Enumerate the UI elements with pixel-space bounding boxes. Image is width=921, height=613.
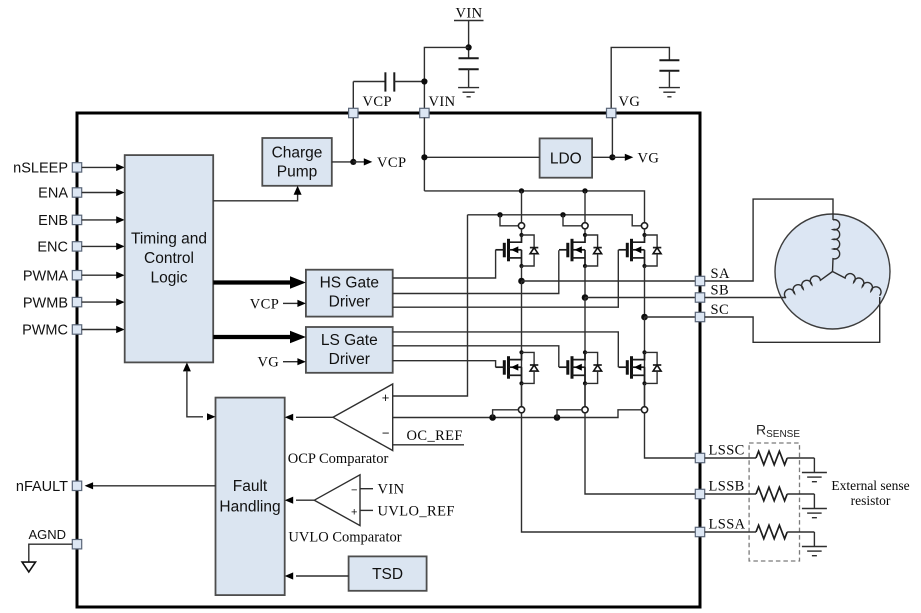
junction SC xyxy=(641,314,648,321)
wire control to fault handling xyxy=(183,362,216,420)
wire source column A xyxy=(521,383,523,406)
wire nSLEEP to control logic xyxy=(82,164,125,171)
block U4 HS Gate Driver xyxy=(306,270,393,317)
net label VCP (charge pump output) xyxy=(377,155,406,171)
pin PWMC xyxy=(72,325,81,334)
svg-text:Timing and: Timing and xyxy=(131,231,207,248)
wire PWMB to control logic xyxy=(82,299,125,306)
junction VIN rail B xyxy=(582,188,587,193)
sense tap circle (Q5) xyxy=(582,407,588,413)
svg-text:PWMB: PWMB xyxy=(23,295,68,311)
label LSSA xyxy=(709,516,746,532)
wire HS sense tap A xyxy=(500,215,518,226)
svg-text:AGND: AGND xyxy=(28,527,66,542)
wire HS gate drive A xyxy=(393,250,496,278)
svg-text:VIN: VIN xyxy=(429,94,456,110)
wire control bus to HS driver xyxy=(213,276,306,289)
wire column B to low side xyxy=(584,298,586,407)
transistor Q2 (high-side B) xyxy=(559,229,587,268)
label SA xyxy=(711,266,730,282)
net label VCP (HS driver supply) xyxy=(250,296,279,312)
svg-text:Fault: Fault xyxy=(233,478,268,495)
body diode D4 xyxy=(522,352,539,383)
wire LS sense tap B xyxy=(557,410,582,418)
wire TSD to fault handling xyxy=(285,572,349,579)
pin PWMB xyxy=(72,297,81,306)
wire LS gate drive A xyxy=(393,361,496,368)
wire phase node A column xyxy=(521,266,523,281)
svg-text:−: − xyxy=(351,485,357,497)
motor M1 (3-phase BLDC) xyxy=(775,214,890,329)
net label VIN (UVLO) xyxy=(378,482,405,498)
svg-text:nFAULT: nFAULT xyxy=(16,479,68,495)
svg-text:SB: SB xyxy=(711,282,730,298)
winding phase A xyxy=(833,220,840,272)
pin ENB xyxy=(72,215,81,224)
svg-text:HS Gate: HS Gate xyxy=(320,275,379,292)
label VIN (pin) xyxy=(429,94,456,110)
label RSENSE xyxy=(756,422,800,441)
svg-text:−: − xyxy=(382,426,390,441)
wire SB to motor xyxy=(705,297,786,299)
junction VCP out xyxy=(350,159,356,165)
label ENA xyxy=(38,186,68,202)
net label VIN (supply) xyxy=(454,6,484,22)
op-amp U8 OCP comparator xyxy=(333,384,393,451)
pin SA xyxy=(695,276,704,285)
svg-text:VCP: VCP xyxy=(363,94,392,110)
wire LS sense tap A xyxy=(493,410,519,418)
wire source column C xyxy=(644,383,646,406)
transistor Q1 (high-side A) xyxy=(496,229,524,268)
wire VCP to HS driver xyxy=(283,300,306,307)
svg-text:SA: SA xyxy=(711,266,730,282)
wire VIN supply vertical xyxy=(468,21,470,59)
pin VCP xyxy=(349,108,358,117)
svg-text:LSSA: LSSA xyxy=(709,516,746,532)
ground (C1) xyxy=(458,88,479,97)
label External sense resistor xyxy=(831,478,909,508)
junction HS sense B xyxy=(560,212,565,217)
IC outline (device boundary) xyxy=(77,113,700,607)
wire HS sense tap B xyxy=(563,215,582,226)
pin LSSA xyxy=(695,527,704,536)
svg-text:VIN: VIN xyxy=(378,482,405,498)
body diode D3 xyxy=(645,235,662,266)
winding phase B xyxy=(784,272,832,298)
svg-text:Handling: Handling xyxy=(219,499,280,516)
svg-text:ENB: ENB xyxy=(38,213,68,229)
svg-text:External sense: External sense xyxy=(831,478,909,493)
block U6 Fault Handling xyxy=(216,398,285,595)
label ENB xyxy=(38,213,68,229)
svg-text:LSSB: LSSB xyxy=(709,478,745,494)
pin ENC xyxy=(72,242,81,251)
ground (AGND analog ground) xyxy=(22,562,35,572)
junction VIN supply xyxy=(466,44,472,50)
wire drain column B xyxy=(584,191,586,223)
pin LSSC xyxy=(695,453,704,462)
label LSSB xyxy=(709,478,745,494)
wire VIN rail xyxy=(424,191,644,223)
resistor R3 (phase C sense) xyxy=(705,451,815,472)
svg-text:resistor: resistor xyxy=(851,493,891,508)
label PWMC xyxy=(22,323,68,339)
wire LS gate drive C xyxy=(393,332,619,367)
label SC xyxy=(711,302,730,318)
block U5 LS Gate Driver xyxy=(306,327,393,373)
wire UVLO plus input xyxy=(360,509,373,511)
pin nSLEEP xyxy=(72,163,81,172)
wire control to charge pump xyxy=(213,186,301,201)
junction SB xyxy=(582,294,589,301)
label UVLO Comparator xyxy=(288,530,401,546)
label PWMB xyxy=(23,295,68,311)
wire LDO output xyxy=(592,118,612,158)
sense tap circle (Q1 (high-side A)) xyxy=(518,223,524,229)
svg-text:LSSC: LSSC xyxy=(709,442,745,458)
wire column A to low side xyxy=(521,281,523,407)
wire SC to motor xyxy=(705,297,880,342)
label VCP (pin) xyxy=(363,94,392,110)
junction LS sense A xyxy=(489,414,496,421)
junction C2/VIN xyxy=(421,78,427,84)
net label VG (LS driver supply) xyxy=(257,355,279,371)
resistor R1 (phase A sense) xyxy=(705,525,815,546)
junction HS sense A xyxy=(497,212,502,217)
label PWMA xyxy=(23,268,68,284)
label VG (pin) xyxy=(619,94,641,110)
label OCP Comparator xyxy=(288,451,389,467)
resistor R2 (phase B sense) xyxy=(705,487,815,508)
junction LS sense B xyxy=(554,414,561,421)
pin SB xyxy=(695,293,704,302)
net label VG (LDO output) xyxy=(638,150,660,166)
wire LS gate drive B xyxy=(393,346,559,367)
capacitor C1 (VIN bulk cap) xyxy=(459,58,479,87)
wire column C to low side xyxy=(644,317,646,407)
svg-text:Driver: Driver xyxy=(329,351,370,368)
wire VG pin to C3 xyxy=(611,47,669,108)
wire ENC to control logic xyxy=(82,243,125,250)
wire UVLO output xyxy=(285,497,315,504)
wire net SA xyxy=(522,280,696,282)
transistor Q3 (high-side C) xyxy=(619,229,647,268)
body diode D2 xyxy=(585,235,602,266)
svg-text:OCP Comparator: OCP Comparator xyxy=(288,451,389,467)
wire VIN pin to LDO xyxy=(424,118,539,191)
sense tap circle (Q3 (high-side C)) xyxy=(641,223,647,229)
pin VG xyxy=(607,108,616,117)
svg-text:LDO: LDO xyxy=(550,151,582,168)
junction VIN rail A xyxy=(519,188,524,193)
svg-text:VIN: VIN xyxy=(456,6,483,22)
winding phase C xyxy=(833,272,882,296)
wire net SB xyxy=(585,297,695,299)
label AGND xyxy=(28,527,66,542)
body diode D1 xyxy=(522,235,539,266)
sense tap circle (Q6) xyxy=(641,407,647,413)
label LSSC xyxy=(709,442,745,458)
block U2 Charge Pump xyxy=(262,138,332,186)
wire HS gate drive B xyxy=(393,250,559,293)
wire VCP pin up xyxy=(352,82,354,109)
svg-text:VG: VG xyxy=(257,355,279,371)
wire nFAULT output xyxy=(85,482,216,489)
wire control bus to LS driver xyxy=(213,331,306,344)
label ENC xyxy=(37,240,68,256)
pin VIN xyxy=(420,108,429,117)
net label OC_REF xyxy=(407,428,463,444)
pin AGND xyxy=(72,540,81,549)
wire UVLO minus input xyxy=(360,488,373,490)
svg-text:Control: Control xyxy=(144,250,194,267)
wire phase node B column xyxy=(584,266,586,298)
wire VG to LS driver xyxy=(283,358,306,365)
svg-text:+: + xyxy=(351,506,357,518)
svg-text:VCP: VCP xyxy=(250,296,279,312)
pin SC xyxy=(695,312,704,321)
pin LSSB xyxy=(695,489,704,498)
wire net LSSA xyxy=(522,413,696,532)
svg-text:VG: VG xyxy=(619,94,641,110)
transistor Q6 (low-side C) xyxy=(619,350,647,385)
svg-text:TSD: TSD xyxy=(372,566,403,583)
svg-text:ENC: ENC xyxy=(37,240,68,256)
wire OCP output xyxy=(285,414,333,421)
wire HS sense rail xyxy=(393,215,642,396)
pin PWMA xyxy=(72,271,81,280)
ground (R2) xyxy=(802,509,827,518)
label SB xyxy=(711,282,730,298)
sense tap circle (Q4) xyxy=(518,407,524,413)
svg-text:PWMA: PWMA xyxy=(23,268,68,284)
net label UVLO_REF xyxy=(378,503,455,519)
svg-text:Logic: Logic xyxy=(150,270,187,287)
wire source column B xyxy=(584,383,586,406)
svg-text:Driver: Driver xyxy=(329,294,370,311)
svg-text:VCP: VCP xyxy=(377,155,406,171)
op-amp U9 UVLO comparator xyxy=(314,475,360,526)
wire ENA to control logic xyxy=(82,189,125,196)
wire net LSSB xyxy=(585,413,695,494)
pin ENA xyxy=(72,188,81,197)
body diode D5 xyxy=(585,352,602,383)
wire ENB to control logic xyxy=(82,216,125,223)
block U3 LDO xyxy=(540,138,593,177)
wire SA to motor xyxy=(705,199,833,281)
svg-text:SC: SC xyxy=(711,302,730,318)
svg-text:ENA: ENA xyxy=(38,186,68,202)
wire phase node C column xyxy=(644,266,646,317)
junction LDO input xyxy=(421,154,427,160)
wire net LSSC xyxy=(645,413,696,458)
wire drain column A xyxy=(521,191,523,223)
svg-text:OC_REF: OC_REF xyxy=(407,428,463,444)
svg-text:+: + xyxy=(382,390,390,405)
svg-text:UVLO Comparator: UVLO Comparator xyxy=(288,530,401,546)
junction SA xyxy=(518,278,525,285)
Rsense dashed box xyxy=(749,443,799,561)
wire OCP minus input (OC_REF) xyxy=(393,444,464,446)
wire AGND to ground xyxy=(29,544,73,562)
label nSLEEP xyxy=(13,161,68,177)
wire PWMC to control logic xyxy=(82,326,125,333)
ground (R1) xyxy=(802,547,827,556)
block U7 TSD xyxy=(349,556,427,590)
junction VG out xyxy=(609,154,615,160)
wire LS sense rail xyxy=(393,410,642,418)
wire net SC xyxy=(645,316,696,318)
capacitor C3 (VG cap) xyxy=(659,60,679,87)
svg-text:UVLO_REF: UVLO_REF xyxy=(378,503,455,519)
svg-text:PWMC: PWMC xyxy=(22,323,68,339)
wire VCP net arrow xyxy=(353,158,372,165)
capacitor C2 (VCP flying cap) xyxy=(353,72,424,91)
svg-text:Charge: Charge xyxy=(272,145,323,162)
wire VG net arrow xyxy=(612,154,633,161)
svg-text:VG: VG xyxy=(638,150,660,166)
label nFAULT xyxy=(16,479,68,495)
svg-text:Pump: Pump xyxy=(277,164,318,181)
wire HS gate drive C xyxy=(393,250,619,308)
transistor Q4 (low-side A) xyxy=(496,350,524,385)
svg-text:LS Gate: LS Gate xyxy=(321,332,378,349)
transistor Q5 (low-side B) xyxy=(559,350,587,385)
wire VIN supply to VIN pin xyxy=(424,47,468,108)
block U1 Timing and Control Logic xyxy=(125,155,214,362)
pin nFAULT xyxy=(72,481,81,490)
body diode D6 xyxy=(645,352,662,383)
wire charge pump VCP output xyxy=(332,118,354,162)
ground (C3) xyxy=(659,88,680,97)
svg-text:nSLEEP: nSLEEP xyxy=(13,161,68,177)
ground (R3) xyxy=(802,473,827,482)
sense tap circle (Q2 (high-side B)) xyxy=(582,223,588,229)
wire PWMA to control logic xyxy=(82,272,125,279)
